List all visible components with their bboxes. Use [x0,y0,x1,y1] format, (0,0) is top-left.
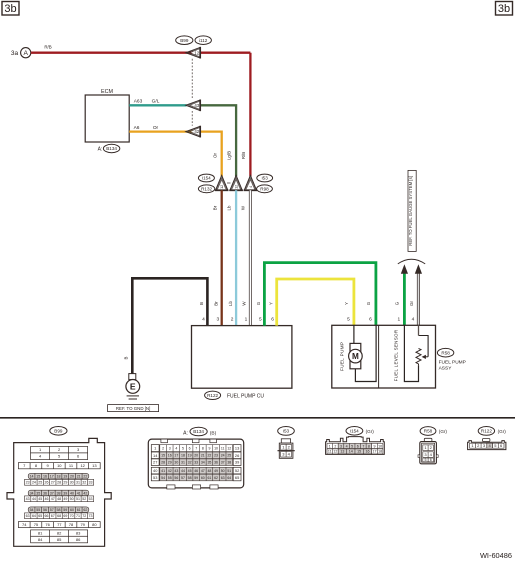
svg-text:21: 21 [77,474,81,478]
svg-text:55: 55 [168,476,172,480]
connector triangle pin 12 (Lg/B-Lb) [229,175,243,190]
svg-text:10: 10 [57,463,62,468]
connector view B134 label A: [183,430,188,436]
FUEL PUMP CU label [227,394,264,400]
fuel level sensor resistor [416,348,421,365]
CU pin 4 [202,317,205,323]
svg-text:78: 78 [69,522,74,527]
wire label B [199,302,204,305]
svg-text:77: 77 [57,522,62,527]
svg-text:41: 41 [77,491,81,495]
svg-text:39: 39 [235,460,239,465]
svg-text:18: 18 [181,454,185,458]
connector i53 (mid) [257,174,273,182]
document number WI-60486 [480,551,512,560]
svg-text:5: 5 [182,446,184,450]
connector R58 oval (assy) [437,348,453,357]
wire label G/L [152,99,160,105]
in-harness connector triangle 12 (B99-i112) [186,47,201,59]
svg-text:7: 7 [362,444,364,448]
svg-text:ECM: ECM [101,89,113,95]
svg-text:36: 36 [214,460,218,464]
connector view B99 body [7,438,111,546]
svg-text:(Gr): (Gr) [498,429,507,434]
svg-text:18: 18 [57,474,61,478]
svg-text:5: 5 [347,317,350,323]
svg-text:22: 22 [83,474,87,478]
svg-text:24: 24 [221,454,225,458]
connector view R58 (Gr) [439,429,448,434]
connector view i53 body [278,439,295,459]
CU pin 1 [245,317,248,323]
svg-text:A:: A: [98,147,103,153]
svg-text:Gr: Gr [409,301,414,306]
svg-text:19: 19 [63,474,67,478]
svg-text:Or: Or [153,125,159,131]
svg-text:9: 9 [374,444,376,448]
svg-text:6: 6 [369,317,372,323]
svg-text:16: 16 [43,474,47,478]
dashed link line between harness connectors [191,59,193,126]
svg-text:B134: B134 [193,429,204,434]
connector view R122 label [478,427,494,436]
svg-text:G: G [366,301,371,305]
ECM connector label A: [98,147,103,153]
svg-text:11: 11 [328,450,332,454]
svg-text:A: A [23,50,28,57]
svg-text:45: 45 [188,469,192,473]
svg-text:R122: R122 [207,393,218,398]
svg-text:1: 1 [397,317,400,323]
connector B99 [176,36,193,45]
svg-text:B99: B99 [54,428,63,433]
svg-text:14: 14 [349,450,353,454]
svg-text:3a: 3a [11,50,19,57]
svg-text:30: 30 [174,460,178,464]
svg-text:28: 28 [161,460,165,464]
wire G to fuel gauge system [403,274,406,326]
svg-text:R132: R132 [201,186,212,191]
svg-text:48: 48 [57,497,61,501]
svg-text:64: 64 [227,476,231,480]
svg-text:58: 58 [188,476,192,480]
wire Br vertical [221,190,223,325]
wire label W (upper) [240,205,245,210]
svg-text:16: 16 [168,454,172,458]
svg-text:42: 42 [168,469,172,473]
svg-text:54: 54 [30,508,34,512]
grid label box 3b top-right [496,2,513,16]
arrowhead Gr to fuel gauge [415,264,422,274]
wire label G [256,301,261,305]
connector view B99 label [50,427,67,436]
wire B from CU pin 4 to ground [132,278,207,373]
svg-text:48: 48 [207,469,211,473]
svg-text:A6: A6 [134,125,140,131]
wire label B (left vertical) [123,356,128,359]
wire label Y (assy) [344,302,349,305]
svg-text:R58: R58 [441,350,450,355]
svg-text:29: 29 [168,460,172,464]
svg-text:50: 50 [221,469,225,473]
svg-text:27: 27 [153,460,157,465]
svg-text:75: 75 [34,522,39,527]
svg-text:81: 81 [38,531,43,536]
wire label Lb [228,301,233,306]
svg-text:E: E [130,382,136,392]
svg-text:(Gr): (Gr) [366,429,375,434]
svg-text:71: 71 [76,514,80,518]
svg-text:5: 5 [259,317,262,323]
svg-text:38: 38 [227,460,231,464]
svg-text:62: 62 [83,508,87,512]
wire Lg/B right of triangle 43 [200,105,237,176]
svg-text:G/L: G/L [152,99,160,105]
wire R/B vertical down to connector i53 [249,53,251,177]
svg-text:61: 61 [77,508,81,512]
svg-text:30: 30 [70,481,74,485]
svg-text:4: 4 [202,317,205,323]
svg-text:14: 14 [30,474,34,478]
svg-text:ASSY: ASSY [439,365,453,371]
FUEL LEVEL SENSOR vertical label [394,329,399,381]
svg-text:85: 85 [57,537,62,542]
svg-text:1: 1 [245,317,248,323]
svg-text:8: 8 [368,444,370,448]
svg-text:Y: Y [344,302,349,305]
svg-text:23: 23 [26,481,30,485]
svg-text:34: 34 [201,460,205,464]
svg-text:2: 2 [231,317,234,323]
svg-text:G: G [256,301,261,305]
svg-text:41: 41 [161,469,165,473]
separator line between schematic and connector views [0,417,515,419]
svg-text:31: 31 [76,481,80,485]
svg-text:67: 67 [51,514,55,518]
svg-text:56: 56 [174,476,178,480]
svg-text:4: 4 [412,317,415,323]
in-harness connector triangle 43 [186,100,201,112]
fuel pump assy box [332,325,436,388]
svg-text:R/B: R/B [44,44,51,49]
svg-text:34: 34 [30,491,34,495]
svg-text:6: 6 [271,317,274,323]
svg-text:(Gr): (Gr) [439,429,448,434]
svg-text:15: 15 [357,450,361,454]
svg-text:i112: i112 [199,38,208,43]
wire label Or [153,125,159,131]
svg-text:47: 47 [201,469,205,473]
assy pin 6 [369,317,372,323]
svg-text:13: 13 [235,446,239,451]
svg-text:65: 65 [235,475,239,480]
wire label Gr (assy) [409,301,414,306]
svg-text:54: 54 [161,476,165,480]
node A (circle connector from 3a) [21,48,31,58]
R122 pins [470,443,504,448]
REF. TO FUEL GAUGE SYSTEM box [408,170,416,251]
svg-text:32: 32 [188,460,192,464]
svg-text:3b: 3b [498,3,510,15]
svg-text:Br: Br [214,301,219,306]
svg-text:72: 72 [82,514,86,518]
svg-text:52: 52 [82,497,86,501]
connector view R58 body [418,438,438,464]
svg-text:2: 2 [334,444,336,448]
svg-text:A63: A63 [134,99,143,105]
svg-text:49: 49 [214,469,218,473]
svg-text:FUEL PUMP: FUEL PUMP [439,359,466,365]
B134 pin grid [151,445,241,481]
ground terminal square [129,374,136,380]
svg-text:17: 17 [174,454,178,458]
svg-text:17: 17 [50,474,54,478]
svg-text:Br: Br [212,205,217,210]
svg-text:61: 61 [207,476,211,480]
svg-text:66: 66 [45,514,49,518]
svg-text:Y: Y [268,302,273,305]
svg-text:i154: i154 [202,176,211,181]
svg-text:WI-60486: WI-60486 [480,551,512,560]
svg-text:17: 17 [373,450,377,454]
svg-text:3b: 3b [4,3,16,15]
svg-text:12: 12 [227,446,231,450]
assy pin 5 [347,317,350,323]
wire label Lb (upper) [227,205,232,210]
fuel pump control unit box [192,326,292,389]
svg-text:1: 1 [329,444,331,448]
svg-text:83: 83 [76,531,81,536]
wire G from CU pin 5 [264,263,376,326]
CU pin 2 [231,317,234,323]
svg-text:60: 60 [201,476,205,480]
svg-text:18: 18 [378,450,382,454]
svg-text:6: 6 [430,458,432,462]
svg-text:FUEL PUMP CU: FUEL PUMP CU [227,394,264,400]
svg-text:69: 69 [63,514,67,518]
assy pin 1 [397,317,400,323]
svg-text:i154: i154 [350,428,359,433]
svg-text:46: 46 [194,469,198,473]
svg-text:58: 58 [57,508,61,512]
svg-text:12: 12 [220,185,224,189]
svg-text:44: 44 [32,497,36,501]
connector triangle pin 4 (R/B-W) [244,175,258,190]
svg-text:6: 6 [189,446,191,450]
FUEL PUMP assy label line2 [439,365,453,371]
svg-text:(B): (B) [210,430,217,436]
svg-text:28: 28 [57,481,61,485]
connector R132 (mid) [198,185,214,193]
connector view i53 label [278,427,295,436]
wire label Y [268,302,273,305]
wire Gr inside assy [418,325,420,335]
svg-text:59: 59 [194,476,198,480]
svg-text:33: 33 [194,460,198,464]
svg-text:27: 27 [51,481,55,485]
svg-text:12: 12 [235,185,239,189]
wire label Lg/B (vertical) [227,151,232,160]
svg-text:i53: i53 [283,429,290,434]
connector i154 (mid) [198,174,214,182]
svg-text:R122: R122 [481,429,492,434]
arc over fuel gauge arrows [398,259,425,264]
svg-text:51: 51 [227,469,231,473]
svg-text:B: B [123,356,128,359]
connector i112 [195,36,211,45]
svg-text:Lb: Lb [227,205,232,210]
svg-text:REF. TO GND [N]: REF. TO GND [N] [116,406,150,411]
svg-text:3: 3 [169,446,171,450]
svg-text:25: 25 [227,454,231,458]
svg-text:10: 10 [214,446,218,450]
wire W vertical (white) [249,190,252,325]
svg-text:70: 70 [70,514,74,518]
i154 pin rows [327,443,383,454]
svg-text:79: 79 [80,522,85,527]
connector view B134 oval [190,427,207,436]
svg-text:47: 47 [51,497,55,501]
svg-text:1: 1 [154,446,156,451]
svg-text:51: 51 [76,497,80,501]
connector view i154 (Gr) [366,429,375,434]
svg-text:4: 4 [249,186,253,188]
svg-text:6: 6 [357,444,359,448]
svg-text:37: 37 [221,460,225,464]
svg-text:52: 52 [235,468,239,473]
svg-text:B99: B99 [180,38,189,43]
svg-text:R58: R58 [424,429,433,434]
svg-text:31: 31 [181,460,185,464]
svg-text:13: 13 [92,463,97,468]
wire label W [242,301,247,306]
svg-text:5: 5 [351,444,353,448]
assy pin 4 [412,317,415,323]
svg-text:46: 46 [45,497,49,501]
svg-text:12: 12 [194,50,199,55]
svg-text:37: 37 [50,491,54,495]
svg-text:15: 15 [161,454,165,458]
svg-text:22: 22 [207,454,211,458]
i53 pins [281,444,292,457]
ECM box [85,95,129,142]
svg-text:19: 19 [188,454,192,458]
svg-text:49: 49 [63,497,67,501]
wire label G (assy pin6) [366,301,371,305]
svg-text:24: 24 [32,481,36,485]
svg-text:43: 43 [174,469,178,473]
connector view R58 label [420,427,436,436]
pin label A63 [134,99,143,105]
svg-text:Or: Or [212,153,217,158]
svg-text:FUEL PUMP: FUEL PUMP [340,342,345,371]
wire label Br (upper) [212,205,217,210]
svg-text:3: 3 [216,317,219,323]
svg-text:84: 84 [38,537,43,542]
svg-text:32: 32 [82,481,86,485]
svg-text:57: 57 [181,476,185,480]
svg-text:12: 12 [333,450,337,454]
FUEL PUMP vertical label [340,342,345,371]
svg-text:74: 74 [22,522,27,527]
svg-text:82: 82 [57,531,62,536]
wire sensor wiper branch [419,336,429,357]
svg-text:29: 29 [63,481,67,485]
svg-text:53: 53 [89,497,93,501]
svg-text:R/B: R/B [241,152,246,159]
link line between triangles 1 and 2 [227,182,231,184]
wire label G (assy pin1) [395,301,400,305]
wire Lb vertical [235,190,237,325]
svg-text:5: 5 [424,458,426,462]
svg-text:B: B [199,302,204,305]
svg-text:56: 56 [43,508,47,512]
svg-text:i53: i53 [262,176,269,181]
svg-text:42: 42 [83,491,87,495]
FUEL PUMP assy label line1 [439,359,466,365]
svg-text:23: 23 [214,454,218,458]
svg-text:B134: B134 [106,146,117,151]
svg-text:8: 8 [202,446,204,450]
svg-text:16: 16 [366,450,370,454]
svg-text:38: 38 [57,491,61,495]
svg-text:Lb: Lb [228,301,233,306]
svg-text:60: 60 [70,508,74,512]
svg-text:64: 64 [32,514,36,518]
svg-text:39: 39 [63,491,67,495]
svg-text:A:: A: [183,430,188,436]
wire Or from ECM pin A6 [129,132,222,177]
svg-text:62: 62 [214,476,218,480]
svg-text:63: 63 [26,514,30,518]
arrowhead G to fuel gauge [401,264,408,274]
R58 pins [423,445,434,462]
svg-text:M: M [352,352,359,361]
label 3a [11,50,19,57]
wire label Br [214,301,219,306]
svg-text:4: 4 [346,444,348,448]
ground point E [126,380,140,400]
svg-text:35: 35 [207,460,211,464]
connector B134 oval under ECM [103,144,119,152]
svg-text:3: 3 [340,444,342,448]
wire sensor left lead [404,325,418,381]
svg-text:26: 26 [45,481,49,485]
svg-text:20: 20 [194,454,198,458]
CU pin 3 [216,317,219,323]
connector view i154 label [346,427,363,436]
svg-text:80: 80 [92,522,97,527]
connector triangle pin 12 (Or-Br) [215,175,229,190]
svg-text:53: 53 [153,475,157,480]
svg-text:Lg/B: Lg/B [227,151,232,160]
wire Y from CU pin 6 [277,279,354,326]
wire G/L from ECM pin A63 [129,104,186,106]
in-harness connector triangle 42 [186,126,201,138]
ECM label [101,89,113,95]
svg-text:36: 36 [43,491,47,495]
B99 pin rows [18,446,100,542]
sensor wiper arrow [422,355,429,359]
pin label A6 [134,125,140,131]
connector view R122 body [468,439,506,450]
svg-text:76: 76 [45,522,50,527]
connector view B134 label (B) [210,430,217,436]
svg-text:63: 63 [221,476,225,480]
svg-text:4: 4 [175,446,177,450]
wire label R/B (top) [44,44,51,49]
CU pin 6 [271,317,274,323]
